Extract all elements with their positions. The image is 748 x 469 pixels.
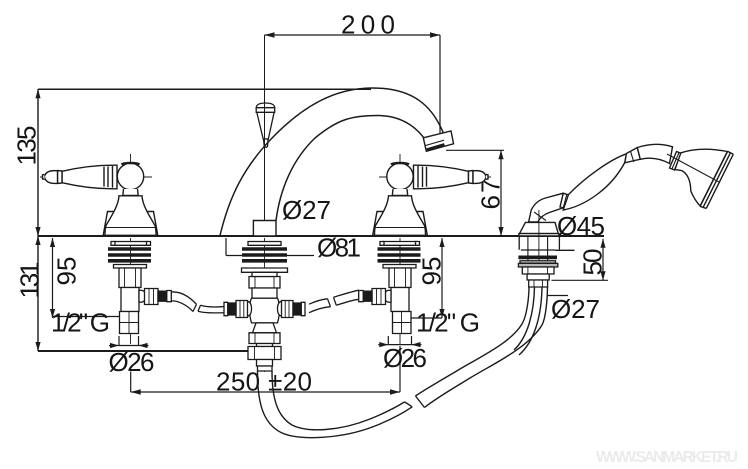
hand shower handle bbox=[560, 144, 682, 210]
shower holder column below deck bbox=[518, 237, 574, 287]
right handle ball bbox=[387, 163, 413, 196]
spout outer curve bbox=[220, 88, 445, 236]
svg-text:1/2" G: 1/2" G bbox=[416, 308, 480, 338]
dimension D81 (escutcheon) bbox=[226, 238, 314, 256]
hand shower holder bell bbox=[519, 222, 559, 236]
svg-text:WWW.SANMARKET.RU: WWW.SANMARKET.RU bbox=[596, 449, 738, 466]
leader for D27 hose label bbox=[547, 295, 569, 297]
hand shower head bbox=[667, 149, 733, 208]
right handle bell base bbox=[373, 196, 428, 236]
spout base column bbox=[253, 221, 276, 237]
svg-text:Ø27: Ø27 bbox=[282, 195, 331, 225]
spout outlet aerator bbox=[423, 131, 453, 151]
dimension 95 right bbox=[411, 238, 445, 318]
svg-text:131: 131 bbox=[15, 262, 45, 299]
right valve side port bbox=[359, 289, 391, 305]
right valve below deck bbox=[378, 238, 421, 344]
dimension 67 bbox=[446, 150, 504, 236]
dimension D26 right bbox=[378, 336, 421, 392]
dimension 95 left bbox=[50, 238, 119, 318]
dimension 250 +-20 bbox=[131, 389, 400, 395]
left handle lever bbox=[43, 165, 118, 189]
tee cross body bbox=[224, 298, 305, 323]
tee lower nuts bbox=[248, 323, 281, 371]
dimension D26 left bbox=[109, 336, 149, 392]
hand shower cup bbox=[529, 193, 567, 222]
dimension 50 bbox=[552, 239, 609, 280]
svg-text:200: 200 bbox=[341, 10, 395, 40]
left handle centerlines bbox=[40, 154, 152, 236]
spout inner curve bbox=[276, 116, 431, 221]
left valve below deck bbox=[108, 238, 151, 344]
left valve side port bbox=[139, 289, 171, 305]
left flex hose bbox=[171, 292, 228, 313]
svg-text:95: 95 bbox=[417, 257, 447, 286]
svg-text:1/2" G: 1/2" G bbox=[51, 308, 110, 338]
right flex hose bbox=[309, 290, 359, 313]
deck line bbox=[38, 235, 604, 237]
diverter knob bbox=[256, 103, 275, 147]
holder centerline bbox=[538, 210, 540, 236]
svg-text:50: 50 bbox=[578, 249, 608, 276]
left handle bell base bbox=[103, 196, 158, 236]
top extent line (135 top) bbox=[38, 88, 371, 90]
dimension 200 line bbox=[265, 32, 441, 141]
right handle centerlines bbox=[379, 154, 491, 236]
left handle ball bbox=[117, 163, 143, 196]
svg-text:95: 95 bbox=[52, 257, 82, 286]
svg-text:Ø26: Ø26 bbox=[383, 343, 427, 373]
bottom extent line (131 bottom) bbox=[38, 350, 251, 352]
svg-text:135: 135 bbox=[12, 126, 42, 166]
main shower hose bbox=[258, 287, 548, 438]
tee column below deck bbox=[242, 238, 288, 372]
left master extension line bbox=[37, 89, 39, 351]
svg-text:Ø27: Ø27 bbox=[551, 294, 600, 324]
right handle lever bbox=[414, 165, 489, 189]
